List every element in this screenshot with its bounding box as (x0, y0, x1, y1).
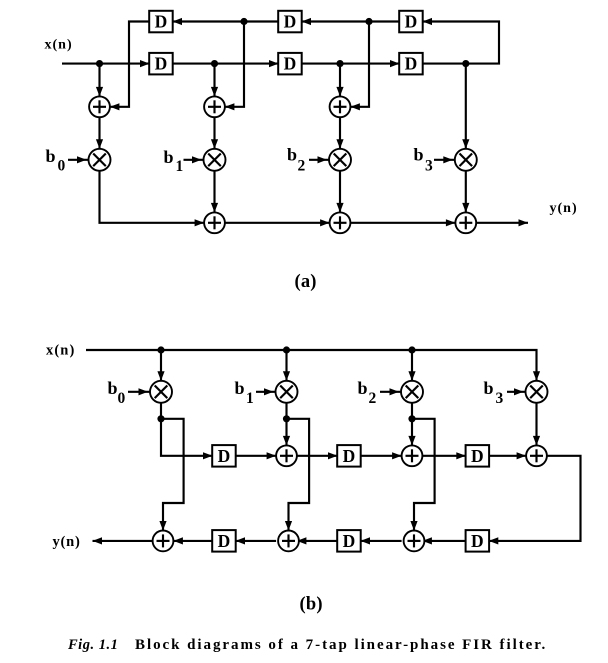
node: top-line tap t2 (a) (240, 18, 247, 25)
arrow into D5a (302, 18, 312, 25)
wire: N3 split right-down jog to adder T2 (b) (412, 419, 435, 531)
svg-text:1: 1 (246, 390, 254, 407)
adder A1 (a) (89, 96, 110, 117)
arrow into delay D6b (489, 537, 499, 544)
coefficient label b1 (a) (164, 147, 184, 175)
svg-text:1: 1 (176, 158, 184, 175)
arrow into adder T0 right (173, 537, 183, 544)
wire: tap down to multiplier N1 (b) (160, 350, 162, 381)
node: split below multiplier N2 (b) (283, 415, 290, 422)
arrow into multiplier M1 top (96, 139, 103, 149)
wire: multiplier M4 output to adder S3 (a) (465, 171, 467, 213)
wire: adder T1 to delay D4b (b) (236, 540, 277, 542)
adder T1 (b) (278, 531, 299, 552)
wire: D3b to adder U3 (b) (489, 455, 526, 457)
wire: D4a output down to adder A1 right input (a) (110, 22, 150, 107)
svg-text:(b): (b) (300, 595, 323, 615)
wire: multiplier M2 output to adder S1 (a) (213, 171, 215, 213)
wire: tap n2 down to adder A3 (a) (339, 64, 341, 97)
delay D6a (top row right, a) (399, 11, 423, 33)
node: x(n) tap for N1 (b) (157, 346, 164, 353)
wire: adder A3 output to multiplier M3 (a) (339, 117, 341, 149)
adder T0 (b) (153, 531, 174, 552)
delay D5b (lower row, b) (337, 530, 361, 552)
svg-text:D: D (218, 531, 231, 551)
wire: adder U2 to delay D3b (b) (422, 455, 465, 457)
wire: adder S3 to y(n) output (a) (476, 222, 528, 224)
wire: multiplier M3 output to adder S2 (a) (339, 171, 341, 213)
svg-text:y(n): y(n) (53, 534, 81, 550)
delay D4b (lower row, b) (212, 530, 236, 552)
multiplier M1 (a) (89, 149, 111, 171)
svg-text:D: D (218, 446, 231, 466)
node: x(n) tap for N3 (b) (408, 346, 415, 353)
node: x(n) tap for N2 (b) (283, 346, 290, 353)
svg-text:3: 3 (496, 390, 504, 407)
svg-text:0: 0 (118, 390, 126, 407)
node: x(n) tap n0 (a) (96, 60, 103, 67)
wire: D5a to D4a (a) (173, 20, 279, 22)
wire: b0 into multiplier N1 (b) (128, 391, 150, 393)
arrow into D3a (390, 60, 400, 67)
arrow to y(n) output (b) (93, 537, 103, 544)
delay D5a (top row middle, a) (278, 11, 302, 33)
wire: top tap t3 down to adder A3 right input (a) (350, 22, 369, 107)
arrow into adder A3 right (350, 103, 360, 110)
svg-text:D: D (343, 446, 356, 466)
wire: D1b to adder U1 (b) (236, 455, 277, 457)
wire: x(n) input to delay D1a (a) (62, 63, 150, 65)
wire: tap n3 down to multiplier M4 (a) (465, 64, 467, 149)
svg-text:b: b (358, 378, 368, 398)
wire: tap down to multiplier N3 (b) (411, 350, 413, 381)
coefficient label b2 (a) (287, 145, 306, 175)
arrow into multiplier M3 top (336, 139, 343, 149)
svg-text:b: b (235, 378, 245, 398)
arrow into adder A1 top (96, 87, 103, 97)
wire: adder U3 output loop down into delay D6b (b) (489, 456, 581, 541)
arrow b2 into M3 (318, 156, 328, 163)
svg-text:y(n): y(n) (550, 201, 578, 216)
arrow b1 into N2 (264, 388, 274, 395)
adder U3 (b) (526, 445, 547, 466)
arrow into adder U3 left (517, 452, 527, 459)
wire: multiplier N1 output to split node (b) (160, 403, 162, 419)
svg-text:D: D (405, 54, 418, 74)
wire: b0 into multiplier M1 (a) (68, 159, 89, 161)
wire: x(n) distribution line (b) (86, 350, 537, 381)
wire: D4b to adder T0 (b) (173, 540, 212, 542)
delay D4a (top row left, a) (149, 11, 173, 33)
wire: D2a to D3a (a) (302, 63, 400, 65)
multiplier N2 (b) (276, 381, 298, 403)
node: tap n2 after D2a (a) (336, 60, 343, 67)
arrow into multiplier N1 top (157, 371, 164, 381)
arrow into multiplier M4 top (462, 139, 469, 149)
coefficient label b2 (b) (358, 378, 377, 407)
svg-text:D: D (155, 54, 168, 74)
arrow into adder A2 top (211, 87, 218, 97)
svg-text:3: 3 (425, 157, 433, 174)
wire: adder S2 to adder S3 (a) (350, 222, 455, 224)
arrow into adder U2 top (408, 436, 415, 446)
wire: multiplier N2 output to split node (b) (285, 403, 287, 419)
adder S2 (a) (330, 212, 351, 233)
multiplier N4 (b) (526, 381, 548, 403)
adder A2 (a) (204, 96, 225, 117)
wire: adder S1 to adder S2 (a) (225, 222, 330, 224)
arrow into adder A2 right (225, 103, 235, 110)
arrow b3 into M4 (443, 156, 453, 163)
adder T2 (b) (404, 531, 425, 552)
arrow into adder T1 right (297, 537, 307, 544)
arrow into multiplier N2 top (283, 371, 290, 381)
arrow b0 into M1 (77, 156, 87, 163)
svg-text:D: D (155, 12, 168, 32)
arrow into adder S1 left (195, 219, 205, 226)
wire: adder T2 to delay D5b (b) (361, 540, 402, 542)
arrow into D1a (140, 60, 150, 67)
wire: adder A2 output to multiplier M2 (a) (213, 117, 215, 149)
wire: tap n0 down to adder A1 (a) (98, 64, 100, 97)
svg-text:Fig. 1.1: Fig. 1.1 (67, 637, 118, 653)
wire: top tap t2 down to adder A2 right input (a) (225, 22, 244, 107)
coefficient label b3 (a) (414, 145, 434, 175)
svg-text:D: D (471, 531, 484, 551)
multiplier M2 (a) (204, 149, 226, 171)
adder U1 (b) (276, 445, 297, 466)
arrow into adder A1 right (110, 103, 120, 110)
delay D3a (bottom row right, a) (399, 53, 423, 75)
svg-text:D: D (405, 12, 418, 32)
coefficient label b1 (b) (235, 378, 254, 407)
wire: adder A1 output to multiplier M1 (a) (98, 117, 100, 149)
arrow into adder T1 top (285, 521, 292, 531)
svg-text:b: b (484, 378, 494, 398)
arrow into adder T0 top (159, 521, 166, 531)
multiplier N1 (b) (150, 381, 172, 403)
arrow into multiplier M2 top (211, 139, 218, 149)
wire: N1 split right-down jog to adder T0 (b) (161, 419, 184, 531)
wire: N2 split right-down jog to adder T1 (b) (287, 419, 310, 531)
wire: multiplier M1 output to adder S1 left (a) (100, 171, 205, 223)
arrow into adder U1 top (283, 436, 290, 446)
arrow b0 into N1 (139, 388, 149, 395)
arrow into adder A3 top (336, 87, 343, 97)
svg-text:Block diagrams of a 7-tap line: Block diagrams of a 7-tap linear-phase F… (135, 637, 547, 653)
arrow into adder U3 top (533, 436, 540, 446)
wire: D6b to adder T2 (b) (422, 540, 465, 542)
arrow into D4a (173, 18, 183, 25)
svg-text:b: b (46, 146, 56, 166)
arrow into adder S1 top (211, 203, 218, 213)
svg-text:b: b (164, 147, 174, 167)
svg-text:x(n): x(n) (45, 38, 73, 53)
node: split below multiplier N3 (b) (408, 415, 415, 422)
adder U2 (b) (402, 445, 423, 466)
arrow into delay D4b (236, 537, 246, 544)
wire: D6a to D5a (a) (302, 20, 400, 22)
delay D2b (upper row, b) (337, 445, 361, 467)
svg-text:b: b (108, 378, 118, 398)
arrow into adder U1 left (267, 452, 277, 459)
svg-text:x(n): x(n) (46, 343, 75, 359)
arrow into adder T2 top (410, 521, 417, 531)
arrow into adder S2 top (336, 203, 343, 213)
svg-text:b: b (287, 145, 297, 165)
adder S3 (a) (455, 212, 476, 233)
node: top-line tap t3 (a) (365, 18, 372, 25)
arrow to y(n) output (a) (519, 219, 529, 226)
arrow into adder S3 top (462, 203, 469, 213)
arrow into delay D3b (456, 452, 466, 459)
node: split below multiplier N1 (b) (157, 415, 164, 422)
wire: b3 into multiplier N4 (b) (507, 391, 526, 393)
wire: D1a to D2a (a) (173, 63, 279, 65)
wire: N3 split down to adder U2 (b) (411, 419, 413, 446)
arrow into multiplier N4 top (533, 371, 540, 381)
wire: b3 into multiplier M4 (a) (434, 159, 455, 161)
svg-text:2: 2 (369, 390, 377, 407)
wire: D5b to adder T1 (b) (297, 540, 338, 542)
wire: adder U1 to delay D2b (b) (297, 455, 338, 457)
arrow b2 into N3 (390, 388, 400, 395)
wire: b2 into multiplier N3 (b) (380, 391, 401, 393)
arrow into adder S3 left (446, 219, 456, 226)
wire: b1 into multiplier M2 (a) (184, 159, 204, 161)
coefficient label b0 (a) (46, 146, 66, 174)
wire: adder T0 output to y(n) (b) (93, 540, 153, 542)
arrow into multiplier N3 top (408, 371, 415, 381)
delay D6b (lower row, b) (466, 530, 490, 552)
arrow into delay D1b (203, 452, 213, 459)
delay D3b (upper row, b) (466, 445, 490, 467)
arrow into D2a (269, 60, 279, 67)
svg-text:D: D (343, 531, 356, 551)
wire: N1 split down-right into delay D1b (b) (161, 419, 213, 456)
svg-text:D: D (284, 12, 297, 32)
wire: b2 into multiplier M3 (a) (309, 159, 329, 161)
wire: multiplier N3 output to split node (b) (411, 403, 413, 419)
arrow into delay D2b (328, 452, 338, 459)
multiplier N3 (b) (401, 381, 423, 403)
arrow b3 into N4 (514, 388, 524, 395)
wire: multiplier N4 output down to adder U3 (b) (535, 403, 537, 446)
coefficient label b0 (b) (108, 378, 126, 407)
wire: b1 into multiplier N2 (b) (256, 391, 276, 393)
node: tap n1 after D1a (a) (211, 60, 218, 67)
delay D1b (upper row, b) (212, 445, 236, 467)
adder A3 (a) (330, 96, 351, 117)
arrow b1 into M2 (192, 156, 202, 163)
multiplier M3 (a) (329, 149, 351, 171)
node: tap n3 after D3a (a) (462, 60, 469, 67)
wire: tap down to multiplier N2 (b) (285, 350, 287, 381)
svg-text:0: 0 (58, 157, 66, 174)
wire: N2 split down to adder U1 (b) (285, 419, 287, 446)
arrow into adder S2 left (320, 219, 330, 226)
coefficient label b3 (b) (484, 378, 504, 407)
adder S1 (a) (204, 212, 225, 233)
arrow into adder U2 left (392, 452, 402, 459)
svg-text:b: b (414, 145, 424, 165)
arrow into adder T2 right (422, 537, 432, 544)
delay D1a (bottom row left, a) (149, 53, 173, 75)
multiplier M4 (a) (455, 149, 477, 171)
svg-text:(a): (a) (295, 272, 317, 292)
arrow into D6a (423, 18, 433, 25)
arrow into delay D5b (361, 537, 371, 544)
svg-text:2: 2 (298, 157, 306, 174)
delay D2a (bottom row middle, a) (278, 53, 302, 75)
svg-text:D: D (284, 54, 297, 74)
wire: tap n1 down to adder A2 (a) (213, 64, 215, 97)
svg-text:D: D (471, 446, 484, 466)
wire: D2b to adder U2 (b) (361, 455, 402, 457)
wire: D3a output loop up to D6a input (a) (423, 22, 500, 64)
